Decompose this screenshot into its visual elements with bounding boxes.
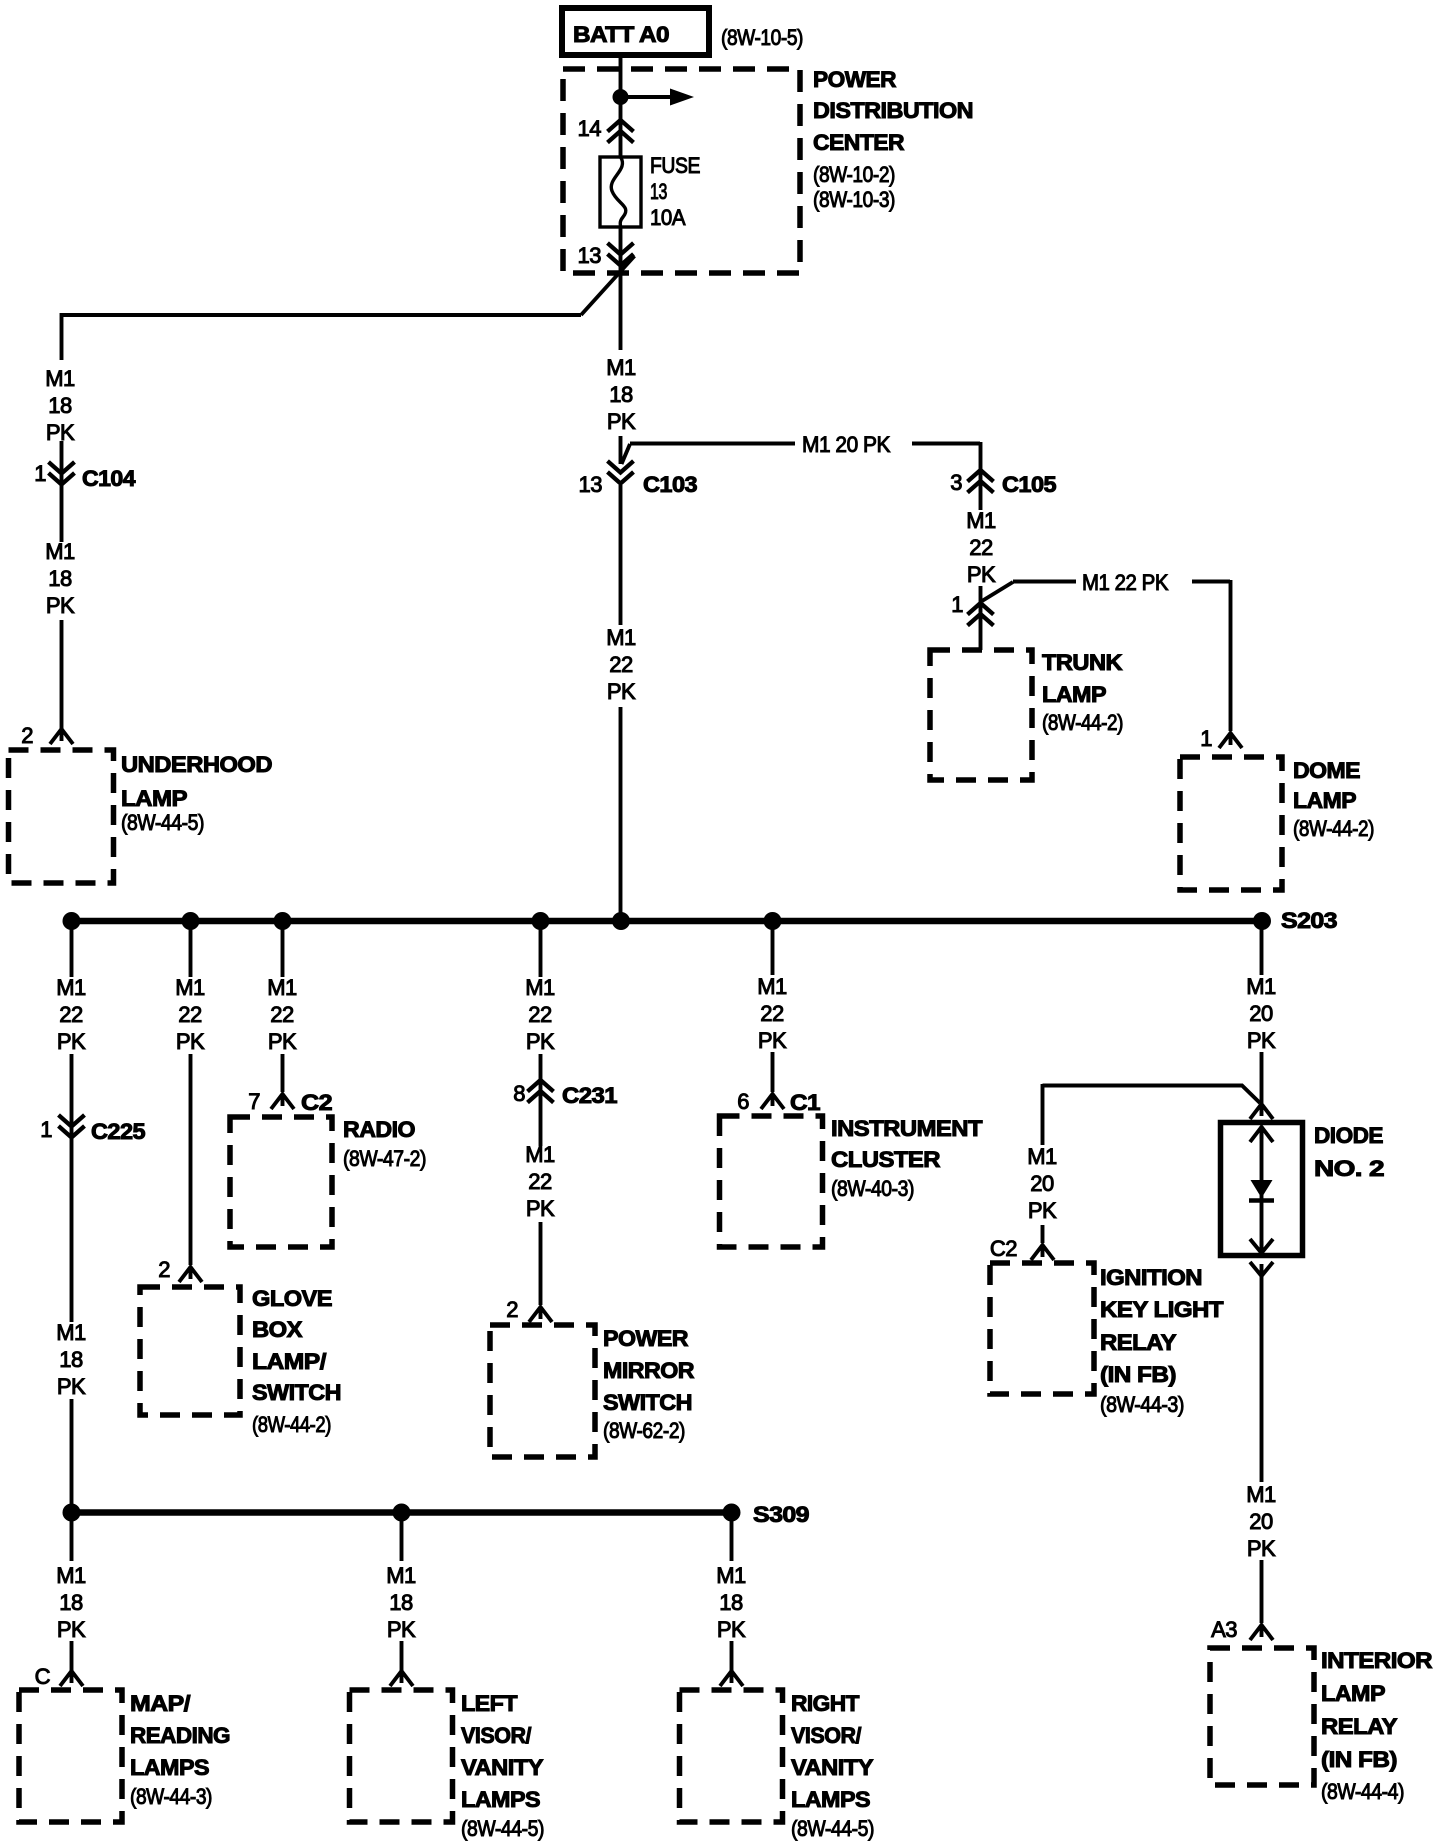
svg-text:(8W-62-2): (8W-62-2) (603, 1418, 685, 1443)
svg-text:DIODE: DIODE (1314, 1123, 1383, 1148)
svg-text:UNDERHOOD: UNDERHOOD (121, 752, 272, 777)
power mirror switch (dashed component box) (490, 1325, 595, 1457)
connector C103 (double chevron) (608, 461, 634, 484)
svg-text:PK: PK (1028, 1198, 1057, 1223)
svg-text:22: 22 (760, 1001, 784, 1026)
pin fork inside diode (bottom) (1250, 1239, 1273, 1253)
svg-text:PK: PK (717, 1617, 746, 1642)
wire diagonal from trunk leg to dome branch (982, 582, 1013, 601)
svg-text:KEY LIGHT: KEY LIGHT (1100, 1297, 1224, 1322)
power source box BATT A0 (562, 8, 709, 55)
svg-text:RADIO: RADIO (343, 1117, 415, 1142)
svg-text:(IN FB): (IN FB) (1321, 1747, 1397, 1772)
svg-text:LAMP: LAMP (1042, 682, 1106, 707)
left visor/vanity lamps (dashed component box) (350, 1690, 453, 1822)
wire branch top horizontal (to C104 leg) (60, 313, 581, 317)
svg-text:(8W-10-2): (8W-10-2) (813, 162, 895, 187)
svg-text:READING: READING (130, 1723, 230, 1748)
map/reading lamps (dashed component box) (19, 1690, 122, 1822)
svg-text:M1: M1 (45, 366, 75, 391)
pin fork at map/reading lamps (60, 1671, 83, 1686)
connector pin 14 (double chevron) (608, 120, 634, 143)
svg-text:(8W-10-5): (8W-10-5) (721, 25, 803, 50)
svg-text:18: 18 (609, 382, 633, 407)
svg-text:20: 20 (1249, 1509, 1273, 1534)
svg-text:VANITY: VANITY (461, 1755, 544, 1780)
svg-text:M1: M1 (757, 974, 787, 999)
wire branch to C105 (horizontal) (630, 442, 980, 446)
dome lamp (dashed component box) (1180, 757, 1282, 890)
svg-text:M1: M1 (56, 1563, 86, 1588)
pin fork at glove box lamp/switch (179, 1267, 202, 1282)
svg-text:C2: C2 (301, 1090, 332, 1115)
svg-text:PK: PK (1247, 1536, 1276, 1561)
wire branch to dome lamp (horizontal) (1013, 580, 1230, 584)
svg-text:POWER: POWER (813, 67, 897, 92)
connector pin 1 trunk lamp (double chevron) (968, 603, 994, 626)
wire right visor leg (x=731) (730, 1512, 734, 1671)
wire C225 leg (x=71) (70, 921, 74, 1512)
wire dome lamp leg vertical (x=1230) (1229, 580, 1233, 731)
svg-text:(8W-44-3): (8W-44-3) (1100, 1392, 1184, 1417)
svg-text:C104: C104 (82, 466, 136, 491)
svg-text:20: 20 (1030, 1171, 1054, 1196)
svg-text:22: 22 (178, 1002, 202, 1027)
svg-text:13: 13 (578, 243, 602, 268)
svg-text:(8W-44-3): (8W-44-3) (130, 1784, 212, 1809)
pin fork at left visor/vanity lamps (390, 1671, 413, 1686)
svg-text:C105: C105 (1002, 472, 1056, 497)
svg-text:PK: PK (967, 562, 996, 587)
svg-text:M1: M1 (606, 625, 636, 650)
svg-text:PK: PK (57, 1617, 86, 1642)
svg-text:PK: PK (57, 1374, 86, 1399)
svg-text:RIGHT: RIGHT (791, 1691, 860, 1716)
pin fork at dome lamp (1219, 733, 1242, 748)
svg-text:M1: M1 (56, 1320, 86, 1345)
svg-text:18: 18 (59, 1347, 83, 1372)
svg-text:PK: PK (607, 409, 636, 434)
svg-text:SWITCH: SWITCH (603, 1390, 692, 1415)
pin fork inside diode (top) (1250, 1127, 1273, 1142)
svg-text:PK: PK (46, 420, 75, 445)
svg-text:13: 13 (650, 179, 667, 204)
svg-text:C225: C225 (91, 1119, 145, 1144)
svg-text:13: 13 (579, 472, 603, 497)
node/bus splice S203 (64, 918, 1270, 925)
svg-text:LEFT: LEFT (461, 1691, 518, 1716)
node: splice junction inside PDC (613, 89, 629, 105)
svg-text:BATT A0: BATT A0 (573, 22, 669, 47)
svg-text:FUSE: FUSE (650, 153, 700, 178)
pin fork above diode (1250, 1104, 1273, 1119)
svg-text:M1 22 PK: M1 22 PK (1082, 570, 1169, 595)
wire left visor leg (x=401) (400, 1512, 404, 1671)
svg-text:(IN FB): (IN FB) (1100, 1362, 1176, 1387)
svg-text:PK: PK (607, 679, 636, 704)
svg-text:(8W-44-5): (8W-44-5) (461, 1816, 544, 1841)
glove box lamp/switch (dashed component box) (140, 1287, 240, 1415)
svg-text:3: 3 (950, 470, 962, 495)
svg-text:18: 18 (719, 1590, 743, 1615)
svg-text:C2: C2 (990, 1236, 1017, 1261)
svg-text:M1: M1 (1246, 974, 1276, 999)
svg-text:M1: M1 (45, 539, 75, 564)
svg-text:22: 22 (528, 1002, 552, 1027)
svg-text:M1: M1 (1027, 1144, 1057, 1169)
power distribution center boundary (dashed) (563, 69, 800, 273)
ignition key light relay (dashed component box) (990, 1263, 1094, 1394)
svg-text:22: 22 (59, 1002, 83, 1027)
svg-text:M1: M1 (175, 975, 205, 1000)
wire radio leg (x=282) (281, 921, 285, 1092)
svg-text:1: 1 (40, 1117, 52, 1142)
wire power mirror leg (x=540) (539, 921, 543, 1305)
svg-text:S203: S203 (1281, 908, 1337, 933)
svg-text:SWITCH: SWITCH (252, 1380, 341, 1405)
diode symbol (1251, 1180, 1273, 1198)
svg-text:(8W-44-5): (8W-44-5) (121, 810, 204, 835)
pin fork at interior lamp relay (1250, 1625, 1273, 1640)
wire map/reading lamps leg (x=71) (70, 1512, 74, 1671)
node/bus splice S309 (64, 1509, 739, 1516)
pin fork at right visor/vanity lamps (720, 1671, 743, 1686)
pin fork at power mirror switch (529, 1307, 552, 1322)
svg-text:PK: PK (758, 1028, 787, 1053)
svg-text:M1: M1 (716, 1563, 746, 1588)
svg-text:18: 18 (48, 393, 72, 418)
svg-text:22: 22 (528, 1169, 552, 1194)
svg-text:CENTER: CENTER (813, 130, 905, 155)
svg-text:GLOVE: GLOVE (252, 1286, 332, 1311)
wire branch stub to C105 (diagonal) (622, 444, 631, 464)
wire branch to ignition key light relay (1043, 1086, 1261, 1104)
interior lamp relay (dashed component box) (1210, 1648, 1314, 1785)
svg-text:M1: M1 (267, 975, 297, 1000)
svg-text:M1: M1 (386, 1563, 416, 1588)
trunk lamp (dashed component box) (930, 650, 1032, 780)
svg-text:DOME: DOME (1293, 758, 1360, 783)
wire through diode (1260, 1126, 1264, 1252)
pin fork at ignition key light relay (1031, 1245, 1054, 1260)
svg-text:(8W-44-2): (8W-44-2) (1293, 816, 1374, 841)
svg-text:10A: 10A (650, 205, 686, 230)
svg-text:18: 18 (48, 566, 72, 591)
right visor/vanity lamps (dashed component box) (680, 1690, 783, 1822)
svg-text:(8W-44-4): (8W-44-4) (1321, 1779, 1404, 1804)
svg-text:8: 8 (513, 1081, 525, 1106)
svg-text:M1: M1 (966, 508, 996, 533)
svg-text:VISOR/: VISOR/ (791, 1723, 861, 1748)
svg-text:MIRROR: MIRROR (603, 1358, 695, 1383)
wire C105 leg vertical (x=980) (979, 442, 983, 650)
svg-text:1: 1 (34, 461, 46, 486)
svg-text:LAMP: LAMP (1321, 1681, 1385, 1706)
svg-text:7: 7 (248, 1089, 260, 1114)
svg-text:LAMP/: LAMP/ (252, 1349, 326, 1374)
svg-text:M1 20 PK: M1 20 PK (802, 432, 891, 457)
svg-text:M1: M1 (525, 1142, 555, 1167)
svg-text:14: 14 (578, 116, 602, 141)
svg-text:(8W-47-2): (8W-47-2) (343, 1146, 426, 1171)
fuse element (wavy) (611, 157, 626, 227)
connector C105 (double chevron) (968, 470, 994, 493)
svg-text:PK: PK (57, 1029, 86, 1054)
svg-text:1: 1 (1200, 726, 1212, 751)
pin fork at radio C2 (271, 1094, 294, 1109)
wire instrument cluster leg (x=772) (771, 921, 775, 1092)
svg-text:C231: C231 (562, 1083, 617, 1108)
svg-text:PK: PK (176, 1029, 205, 1054)
connector pin 13 (double chevron) (608, 243, 634, 266)
svg-text:LAMP: LAMP (1293, 788, 1356, 813)
svg-text:PK: PK (387, 1617, 416, 1642)
svg-text:2: 2 (21, 723, 33, 748)
connector C231 (double chevron) (528, 1080, 554, 1103)
svg-text:POWER: POWER (603, 1326, 689, 1351)
underhood lamp (dashed component box) (9, 750, 114, 883)
svg-text:M1: M1 (606, 355, 636, 380)
svg-text:(8W-10-3): (8W-10-3) (813, 187, 895, 212)
svg-text:PK: PK (526, 1196, 555, 1221)
svg-text:INSTRUMENT: INSTRUMENT (831, 1116, 983, 1141)
svg-text:INTERIOR: INTERIOR (1321, 1648, 1433, 1673)
svg-text:IGNITION: IGNITION (1100, 1265, 1202, 1290)
wire diode leg upper (x=1261) (1260, 921, 1264, 1103)
svg-text:VANITY: VANITY (791, 1755, 874, 1780)
svg-text:PK: PK (526, 1029, 555, 1054)
svg-text:BOX: BOX (252, 1317, 303, 1342)
connector C225 (double chevron) (59, 1115, 85, 1138)
svg-text:(8W-40-3): (8W-40-3) (831, 1176, 914, 1201)
svg-text:MAP/: MAP/ (130, 1691, 190, 1716)
svg-text:PK: PK (1247, 1028, 1276, 1053)
pin fork at underhood lamp (50, 729, 73, 744)
svg-text:6: 6 (737, 1089, 749, 1114)
svg-text:C: C (35, 1664, 51, 1689)
svg-text:PK: PK (268, 1029, 297, 1054)
wire arrow to other circuits (627, 95, 672, 99)
svg-text:PK: PK (46, 593, 75, 618)
svg-text:LAMPS: LAMPS (130, 1755, 209, 1780)
svg-text:LAMPS: LAMPS (791, 1787, 870, 1812)
svg-text:A3: A3 (1211, 1617, 1237, 1642)
svg-text:RELAY: RELAY (1100, 1330, 1177, 1355)
svg-text:22: 22 (270, 1002, 294, 1027)
wire diagonal from pin 13 to left branch (581, 256, 635, 315)
svg-text:VISOR/: VISOR/ (461, 1723, 531, 1748)
svg-text:18: 18 (59, 1590, 83, 1615)
svg-text:S309: S309 (753, 1502, 809, 1527)
svg-text:(8W-44-2): (8W-44-2) (252, 1412, 331, 1437)
svg-text:M1: M1 (525, 975, 555, 1000)
svg-text:C1: C1 (790, 1090, 820, 1115)
svg-text:18: 18 (389, 1590, 413, 1615)
fuse 13 10A body (600, 157, 641, 227)
svg-text:NO. 2: NO. 2 (1314, 1156, 1384, 1181)
svg-text:20: 20 (1249, 1001, 1273, 1026)
svg-text:TRUNK: TRUNK (1042, 650, 1123, 675)
svg-text:2: 2 (506, 1297, 518, 1322)
wire interior lamp relay leg (x=1261) (1260, 1276, 1264, 1623)
pin fork at instrument cluster C1 (761, 1094, 784, 1109)
radio (dashed component box) (230, 1117, 332, 1247)
svg-text:LAMPS: LAMPS (461, 1787, 540, 1812)
wire glove box leg (x=190) (189, 921, 193, 1265)
instrument cluster (dashed component box) (720, 1116, 823, 1247)
svg-text:C103: C103 (643, 472, 697, 497)
svg-text:2: 2 (158, 1257, 170, 1282)
diode no. 2 box (1221, 1123, 1303, 1256)
svg-text:RELAY: RELAY (1321, 1714, 1398, 1739)
wire C104 leg vertical (x=61) (60, 313, 64, 729)
svg-text:M1: M1 (56, 975, 86, 1000)
svg-text:DISTRIBUTION: DISTRIBUTION (813, 98, 973, 123)
wire main feed M1 PK (x=620) (619, 55, 623, 918)
svg-text:22: 22 (969, 535, 993, 560)
svg-text:22: 22 (609, 652, 633, 677)
svg-text:M1: M1 (1246, 1482, 1276, 1507)
svg-text:(8W-44-2): (8W-44-2) (1042, 710, 1123, 735)
pin fork below diode (1250, 1262, 1273, 1276)
svg-text:CLUSTER: CLUSTER (831, 1147, 941, 1172)
svg-text:1: 1 (951, 592, 963, 617)
svg-text:(8W-44-5): (8W-44-5) (791, 1816, 874, 1841)
connector C104 (double chevron) (49, 462, 75, 485)
svg-text:LAMP: LAMP (121, 786, 187, 811)
